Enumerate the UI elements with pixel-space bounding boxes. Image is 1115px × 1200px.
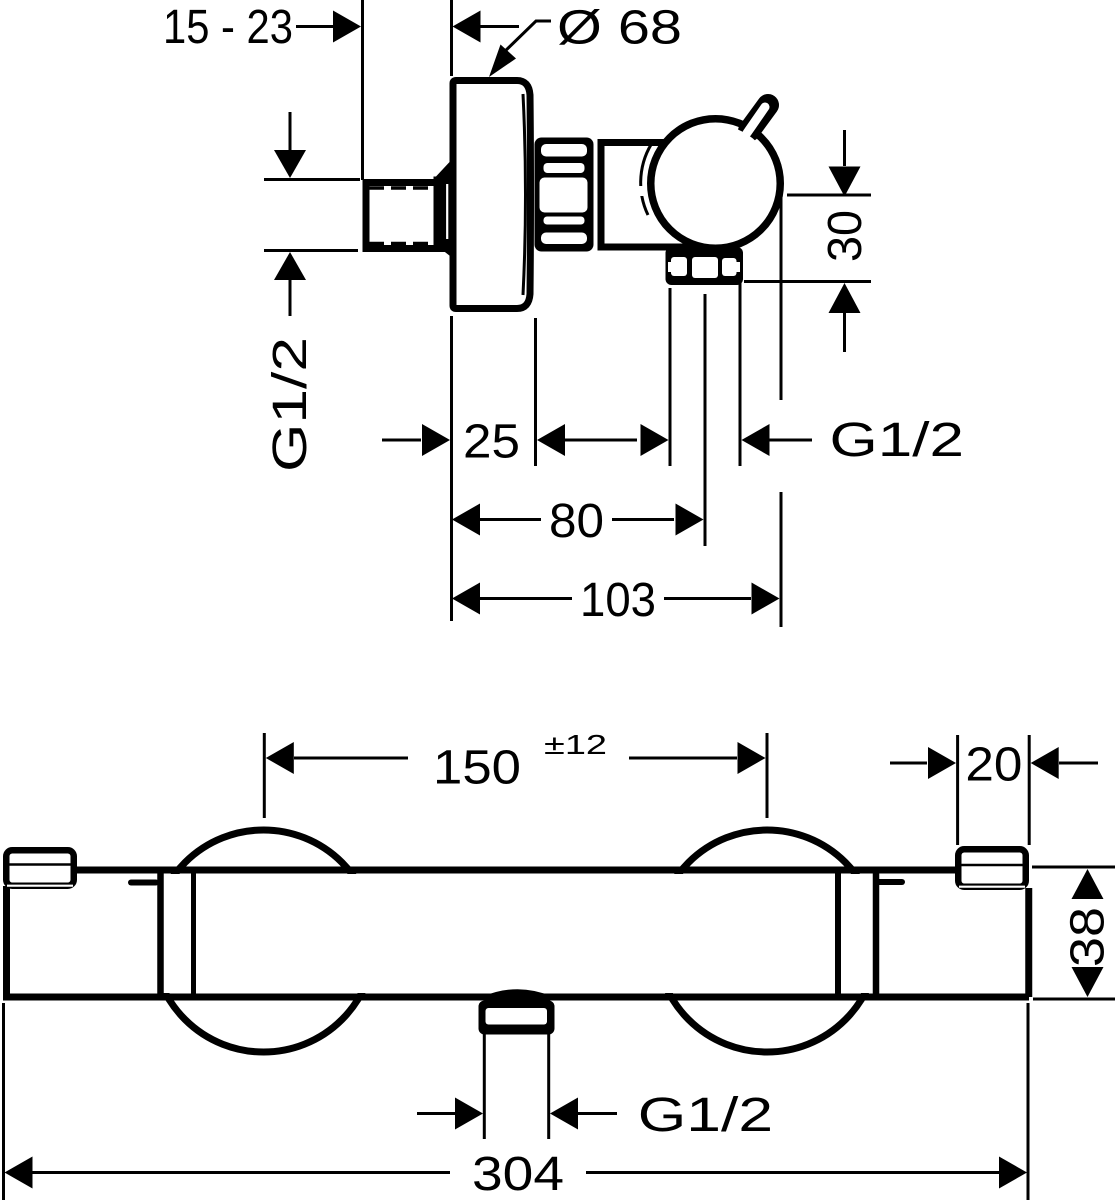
- svg-text:15 - 23: 15 - 23: [163, 0, 293, 54]
- svg-text:150: 150: [433, 740, 521, 794]
- svg-text:25: 25: [463, 414, 520, 468]
- svg-text:80: 80: [549, 494, 604, 548]
- svg-text:38: 38: [1060, 907, 1114, 967]
- svg-text:G1/2: G1/2: [263, 337, 317, 472]
- svg-text:Ø 68: Ø 68: [557, 0, 682, 54]
- svg-text:304: 304: [472, 1147, 564, 1200]
- svg-text:103: 103: [580, 573, 656, 627]
- svg-text:20: 20: [965, 737, 1022, 791]
- svg-text:±12: ±12: [544, 729, 607, 760]
- svg-text:G1/2: G1/2: [638, 1088, 773, 1142]
- svg-text:30: 30: [818, 210, 872, 262]
- svg-text:G1/2: G1/2: [830, 413, 965, 467]
